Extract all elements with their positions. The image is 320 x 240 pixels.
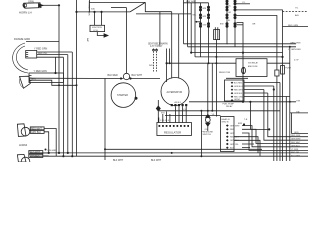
svg-text:COIL: COIL — [93, 30, 99, 32]
svg-text:AND FUSE: AND FUSE — [248, 65, 258, 68]
svg-text:RED GRN: RED GRN — [291, 135, 301, 137]
svg-text:BLK WHT: BLK WHT — [132, 74, 143, 77]
wire HL1 b — [44, 132, 49, 153]
node B+ dots — [242, 101, 244, 103]
svg-text:W/R: W/R — [149, 65, 153, 67]
wire HL1 a — [30, 129, 56, 157]
svg-text:GRN WHT: GRN WHT — [230, 125, 240, 127]
fuse F1 — [214, 27, 220, 40]
svg-text:RESISTOR: RESISTOR — [219, 72, 231, 74]
svg-text:HORN LH: HORN LH — [19, 11, 32, 15]
svg-text:Y RED GRN: Y RED GRN — [34, 48, 48, 51]
svg-text:BL: BL — [228, 20, 230, 22]
ignition coil box — [90, 25, 105, 31]
svg-text:A H.T ONLY: A H.T ONLY — [150, 45, 163, 48]
svg-text:BLK RED: BLK RED — [234, 83, 243, 85]
svg-text:G/W: G/W — [203, 25, 207, 27]
wire alt S out — [159, 110, 280, 112]
svg-text:FRAME GRD: FRAME GRD — [14, 37, 30, 41]
resistor R1 — [275, 70, 279, 76]
svg-text:GRN BLK: GRN BLK — [31, 132, 42, 134]
svg-text:HEAD B: HEAD B — [222, 118, 231, 121]
wire R1 down — [276, 76, 278, 161]
node ammeter circle — [123, 8, 129, 80]
wire hC — [191, 52, 282, 54]
wire feed from top — [111, 7, 127, 9]
svg-text:GRN YEL: GRN YEL — [230, 144, 240, 146]
wire hA — [184, 43, 297, 45]
wire alt N out — [165, 115, 221, 117]
wire center verticals low — [201, 40, 216, 157]
wire W/L vertical — [190, 3, 192, 53]
wire dashed chk — [154, 49, 157, 72]
wires cluster B — [227, 4, 235, 47]
svg-text:4 mF: 4 mF — [294, 60, 299, 62]
svg-text:A/B: A/B — [295, 14, 299, 17]
node relay dot — [273, 88, 275, 90]
wire hD — [195, 56, 283, 58]
svg-text:B/W: B/W — [220, 24, 224, 26]
label W/B rows — [203, 5, 232, 26]
svg-text:GRN BLK: GRN BLK — [234, 93, 243, 95]
wire j129 — [250, 102, 269, 130]
node bottom crossings — [104, 148, 202, 157]
wire side lamp — [30, 80, 77, 85]
wire y112.9 — [290, 112, 308, 114]
wire C1 pin1 — [37, 51, 73, 53]
svg-text:GR: GR — [252, 24, 256, 26]
wire x291.5 — [292, 113, 309, 133]
svg-text:Y RED GRN: Y RED GRN — [34, 70, 48, 73]
svg-text:GRN BLU: GRN BLU — [234, 86, 243, 88]
wire RD out — [237, 23, 244, 53]
svg-text:GRN/L: GRN/L — [234, 99, 241, 101]
node bus dots — [58, 84, 74, 157]
svg-text:RED WHT: RED WHT — [234, 90, 244, 92]
svg-text:RED YEL: RED YEL — [38, 53, 48, 55]
wire HL2 a — [43, 152, 49, 154]
svg-text:GRD B: GRD B — [222, 121, 229, 123]
label alt terminals — [160, 101, 187, 122]
left harness bus wires — [58, 5, 60, 153]
node hC dots — [190, 52, 192, 54]
svg-text:SEAT BELT WARN: SEAT BELT WARN — [148, 42, 168, 45]
node W/L stub — [196, 21, 198, 23]
connector C1 — [26, 51, 37, 59]
wire x289.6 — [289, 47, 291, 161]
svg-text:FUSE: FUSE — [286, 68, 292, 70]
svg-text:LT GRN: LT GRN — [291, 149, 299, 151]
svg-text:RED: RED — [230, 129, 235, 131]
wire corner to ign — [145, 2, 171, 11]
svg-text:B/W: B/W — [238, 123, 242, 125]
svg-text:BLK WHT: BLK WHT — [113, 160, 124, 162]
starter motor M1 — [111, 83, 137, 108]
wire hB — [188, 46, 296, 48]
head lamp LH — [17, 124, 29, 137]
svg-text:GRN: GRN — [294, 132, 299, 134]
bulb check relay — [219, 59, 267, 77]
wire x246 drop — [242, 53, 244, 102]
wire right stub — [283, 26, 309, 28]
wires cluster A — [201, 3, 209, 63]
svg-text:IGN RELAY: IGN RELAY — [248, 62, 259, 65]
wires alt to regulator — [175, 106, 186, 122]
label RED WHT — [30, 127, 44, 130]
bottom bus wires — [105, 148, 262, 150]
connector clips — [153, 49, 155, 51]
svg-text:GRN: GRN — [28, 0, 34, 4]
connector rows top A — [199, 6, 210, 28]
wire Y/L out — [237, 3, 251, 5]
wire BLU out — [237, 16, 277, 71]
wire seat belt feed — [159, 12, 161, 46]
label RED WHT 2 — [29, 151, 43, 154]
svg-text:REGULATOR: REGULATOR — [164, 131, 181, 135]
node j129 — [268, 128, 270, 130]
regulator box — [157, 123, 192, 136]
fuel pump relay connector — [225, 80, 245, 101]
svg-text:BLK WHT: BLK WHT — [151, 160, 162, 162]
wire relay pin lines — [244, 83, 290, 97]
svg-text:BLK RED: BLK RED — [108, 74, 119, 77]
svg-text:GRN BLK: GRN BLK — [291, 145, 300, 147]
wire dashed right — [283, 10, 309, 12]
wire GR out — [237, 10, 283, 161]
node alt left — [166, 62, 168, 64]
svg-text:GRN: GRN — [230, 133, 235, 135]
svg-text:GRN WHT: GRN WHT — [291, 139, 301, 141]
connector C2 — [29, 73, 63, 83]
wire HL2 b — [43, 155, 49, 157]
wire top bus — [89, 1, 145, 3]
wire diagonal — [130, 2, 145, 12]
head B connector — [221, 117, 235, 152]
svg-text:ALTERNATOR: ALTERNATOR — [167, 91, 183, 94]
fuse F2 — [281, 66, 292, 75]
oil pressure switch — [202, 63, 214, 136]
svg-text:H4064: H4064 — [19, 143, 28, 147]
horn LH — [23, 3, 43, 8]
fusible link — [88, 0, 90, 12]
bottom-right labels — [291, 132, 301, 158]
wire C2 drop — [55, 57, 57, 73]
svg-text:W/R: W/R — [203, 16, 207, 18]
node feed dots — [93, 11, 95, 13]
wire hE — [167, 62, 290, 64]
wire C1 pin2 — [37, 54, 68, 56]
wire coil gnd — [97, 32, 104, 36]
svg-text:RELAY: RELAY — [226, 105, 233, 108]
node HL junction — [48, 152, 50, 154]
label GRN BLK 2 — [29, 154, 43, 157]
svg-text:Y/L: Y/L — [228, 5, 231, 7]
wire coil drops — [95, 12, 102, 25]
svg-text:GRN GRN: GRN GRN — [290, 43, 301, 45]
svg-text:RED GRN: RED GRN — [234, 97, 243, 99]
node B/W — [243, 123, 245, 125]
head lamp RH — [17, 154, 29, 165]
ground terminal E — [156, 106, 160, 111]
svg-text:STARTER: STARTER — [117, 94, 128, 97]
node horn junction — [58, 4, 60, 6]
ignition switch verticals — [179, 0, 195, 78]
wire loom arcs — [13, 43, 28, 73]
wire top feed A — [184, 2, 209, 4]
svg-text:FUSIBLE LINK: FUSIBLE LINK — [88, 1, 90, 16]
wire frame grd — [26, 41, 59, 43]
alternator terminals — [171, 104, 188, 106]
head B pin wires — [242, 126, 308, 147]
connector rows top B — [226, 0, 237, 28]
side lamp — [20, 76, 31, 88]
right bus verticals — [264, 90, 308, 141]
wire horn to bus — [43, 4, 59, 6]
wire BW out — [237, 24, 244, 26]
svg-text:A B E F: A B E F — [175, 101, 182, 104]
ground arrow — [104, 34, 108, 37]
svg-text:RED WHT: RED WHT — [291, 142, 301, 144]
svg-text:1 2 3 4 5 6: 1 2 3 4 5 6 — [160, 120, 169, 122]
wire alt left — [166, 49, 168, 83]
svg-text:BAT: BAT — [86, 38, 89, 43]
svg-text:Y/W: Y/W — [296, 100, 300, 102]
label GRN BLK — [30, 130, 44, 133]
wire alt B out — [189, 101, 296, 103]
node C2 feed — [54, 72, 56, 74]
alternator G1 — [161, 78, 189, 106]
wire ign branch — [136, 13, 191, 15]
wire resistor tail — [226, 77, 248, 79]
wire C1 pin3 — [37, 56, 64, 58]
svg-text:SWITCH: SWITCH — [203, 134, 212, 136]
wire lower feed — [77, 11, 131, 13]
head B pin labels — [230, 125, 240, 149]
alternator feed wire — [171, 12, 173, 79]
wire starter drop — [104, 79, 106, 161]
wire main B+ — [29, 77, 160, 79]
node B+ dots — [120, 77, 122, 79]
